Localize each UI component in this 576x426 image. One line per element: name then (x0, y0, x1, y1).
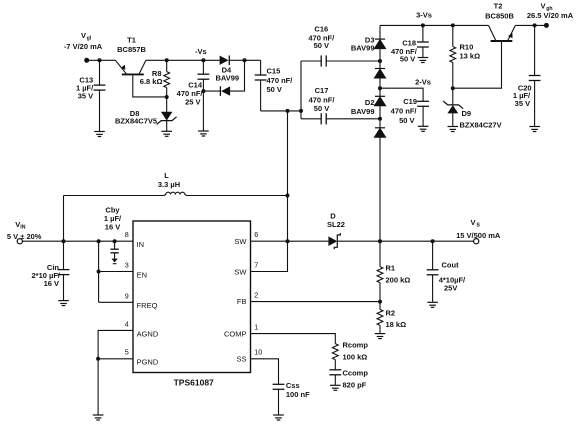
node PGND junction (96, 357, 100, 361)
svg-text:IN: IN (137, 240, 145, 249)
transistor T1 (115, 36, 146, 75)
wire C16/C17 left vertical (300, 61, 302, 119)
node Cout junction (431, 239, 435, 243)
wire FB (251, 301, 381, 303)
node C18 top (421, 23, 425, 27)
svg-text:470 nF/: 470 nF/ (391, 107, 418, 116)
ground C13 (94, 132, 105, 137)
zener diode D9 (443, 88, 501, 129)
svg-text:2: 2 (254, 291, 258, 300)
svg-text:SW: SW (234, 267, 247, 276)
ground Css (273, 415, 284, 420)
ground D8 (161, 131, 172, 136)
svg-text:100 nF: 100 nF (286, 390, 310, 399)
wire T2 base (453, 42, 502, 88)
capacitor Css (273, 381, 310, 415)
svg-text:BAV99: BAV99 (351, 44, 375, 53)
ground AGND/PGND (93, 415, 104, 420)
terminal Vs (474, 239, 479, 244)
svg-text:R1: R1 (386, 263, 396, 272)
node R1 top junction (378, 239, 382, 243)
node C13 junction (98, 58, 102, 62)
svg-text:5 V ± 20%: 5 V ± 20% (7, 232, 42, 241)
svg-text:Ccomp: Ccomp (343, 369, 369, 378)
svg-text:820 pF: 820 pF (343, 381, 367, 390)
diode D2 (dual BAV99) (351, 96, 386, 137)
resistor Rcomp (332, 341, 368, 370)
wire VIN row (22, 240, 133, 242)
node Cby junction (113, 239, 117, 243)
svg-text:SW: SW (234, 237, 247, 246)
wire SW riser (287, 111, 289, 241)
capacitor Cin (31, 241, 69, 300)
pin 10 SS (236, 348, 262, 364)
svg-text:C17: C17 (315, 86, 329, 95)
pin 6 SW (234, 230, 258, 246)
node C16/C17 left junction (299, 109, 303, 113)
svg-text:D2: D2 (365, 98, 375, 107)
ground C14 (198, 131, 209, 136)
ground Cout (427, 302, 438, 307)
node R10/D9/base junction (451, 86, 455, 90)
node inductor right junction (286, 194, 290, 198)
wire EN/FREQ branch (99, 241, 133, 302)
wire D2 bottom to Vs rail (379, 137, 381, 241)
svg-text:BAV99: BAV99 (215, 73, 239, 82)
capacitor C17 (301, 86, 380, 125)
capacitor Ccomp (329, 369, 368, 390)
svg-text:C15: C15 (267, 67, 281, 76)
wire 2-Vs row (380, 88, 423, 101)
capacitor Cby (104, 206, 122, 253)
svg-text:-Vs: -Vs (195, 47, 207, 56)
svg-text:16 V: 16 V (105, 223, 120, 232)
node C17 right junction (378, 117, 382, 121)
wire inductor left leg (63, 196, 65, 242)
svg-text:10: 10 (254, 348, 262, 357)
op-amp U1 TPS61087 body (133, 221, 251, 387)
node Vs label (456, 218, 501, 240)
wire SS (251, 359, 279, 385)
node EN junction (97, 270, 101, 274)
node C20 top (533, 23, 537, 27)
svg-text:V: V (470, 218, 475, 227)
svg-text:6.8 kΩ: 6.8 kΩ (140, 77, 163, 86)
capacitor C20 (513, 25, 541, 126)
svg-text:16 V: 16 V (44, 279, 59, 288)
capacitor Cout (427, 241, 466, 302)
svg-text:13 kΩ: 13 kΩ (460, 52, 481, 61)
capacitor C13 (76, 60, 105, 131)
node 2-Vs junction (378, 86, 382, 90)
diode D3 (dual BAV99) (351, 36, 386, 78)
svg-text:BC857B: BC857B (117, 45, 146, 54)
svg-text:5: 5 (125, 348, 129, 357)
capacitor C14 (177, 60, 210, 131)
svg-text:IN: IN (20, 224, 25, 230)
pin 9 FREQ (125, 291, 158, 310)
node C16 right junction (378, 59, 382, 63)
capacitor C19 (391, 97, 429, 126)
wire -Vs rail (146, 59, 220, 61)
capacitor C16 (301, 25, 380, 67)
ground R2 (375, 334, 386, 339)
capacitor C18 (391, 25, 429, 63)
svg-text:35 V: 35 V (515, 99, 530, 108)
svg-text:50 V: 50 V (399, 116, 414, 125)
resistor R10 (450, 25, 480, 88)
svg-text:8: 8 (125, 230, 129, 239)
svg-text:D9: D9 (462, 109, 472, 118)
wire C15 bottom to pump column (261, 110, 301, 112)
wire AGND/PGND to ground (98, 330, 133, 415)
diode D SL22 (schottky) (327, 212, 345, 250)
svg-text:35 V: 35 V (78, 92, 93, 101)
svg-text:L: L (164, 171, 169, 180)
wire SW7 (251, 241, 288, 271)
svg-text:COMP: COMP (224, 329, 247, 338)
wire SW to diode D (288, 240, 329, 242)
svg-text:BAV99: BAV99 (351, 107, 375, 116)
svg-text:AGND: AGND (137, 329, 159, 338)
ground Cin (58, 301, 69, 306)
pin 1 COMP (224, 323, 258, 339)
zener diode D8 (115, 97, 177, 131)
resistor R1 (377, 241, 410, 301)
svg-text:C19: C19 (403, 97, 417, 106)
node R8 bottom (165, 95, 169, 99)
svg-text:R2: R2 (386, 308, 396, 317)
node SW junction (286, 239, 290, 243)
svg-text:T2: T2 (494, 2, 503, 11)
node Vgl label (64, 31, 103, 51)
transistor T2 (485, 2, 515, 41)
svg-text:470 nF/: 470 nF/ (267, 76, 294, 85)
pin 8 IN (125, 230, 144, 249)
resistor R8 (140, 60, 170, 97)
diode D4 (dual BAV99) (203, 56, 244, 96)
svg-text:1: 1 (254, 323, 258, 332)
wire COMP (251, 334, 336, 344)
svg-text:-7 V/20 mA: -7 V/20 mA (64, 42, 103, 51)
pin 3 EN (125, 261, 147, 280)
node D4 junction (243, 58, 247, 62)
svg-text:C16: C16 (314, 25, 328, 34)
wire pump column (379, 25, 381, 39)
svg-text:50 V: 50 V (400, 55, 415, 64)
svg-text:50 V: 50 V (314, 104, 329, 113)
pin 2 FB (237, 291, 258, 307)
node SW riser junction (286, 109, 290, 113)
node R10 top (451, 23, 455, 27)
svg-text:3-Vs: 3-Vs (416, 11, 432, 20)
svg-text:PGND: PGND (137, 358, 159, 367)
svg-text:7: 7 (254, 261, 258, 270)
svg-text:50 V: 50 V (314, 41, 329, 50)
svg-text:EN: EN (137, 270, 147, 279)
svg-text:T1: T1 (127, 36, 136, 45)
node C14 top junction (201, 58, 205, 62)
wire D to Vs terminal (337, 240, 474, 242)
ground D9 (448, 127, 459, 132)
ground Ccomp (330, 385, 341, 390)
svg-text:18 kΩ: 18 kΩ (386, 320, 407, 329)
wire 3-Vs rail (380, 24, 489, 26)
wire (379, 78, 381, 96)
node R8 top (165, 58, 169, 62)
svg-text:BZX84C27V: BZX84C27V (460, 120, 502, 129)
svg-text:R10: R10 (460, 42, 474, 51)
svg-text:V: V (540, 1, 545, 10)
ground C20 (529, 127, 540, 132)
svg-text:SL22: SL22 (327, 220, 345, 229)
svg-text:3: 3 (125, 261, 129, 270)
svg-text:2-Vs: 2-Vs (415, 78, 431, 87)
svg-text:200 kΩ: 200 kΩ (386, 276, 411, 285)
capacitor C15 (255, 60, 294, 111)
svg-text:25V: 25V (444, 283, 457, 292)
inductor L (64, 171, 288, 195)
svg-text:Css: Css (286, 381, 300, 390)
svg-text:FB: FB (237, 297, 247, 306)
svg-text:50 V: 50 V (267, 85, 282, 94)
terminal Vgh (544, 23, 549, 28)
ground C18 (418, 58, 429, 63)
ground C19 (418, 126, 429, 131)
svg-text:Cout: Cout (442, 261, 460, 270)
node Cin junction (62, 239, 66, 243)
wire SW6 (251, 240, 288, 242)
node Vgh label (527, 1, 574, 20)
svg-text:470 nF/: 470 nF/ (309, 95, 336, 104)
pin 7 SW (234, 261, 258, 277)
node EN branch junction (97, 239, 101, 243)
node FB junction (378, 300, 382, 304)
wire to C15 (245, 59, 261, 61)
svg-text:100 kΩ: 100 kΩ (343, 353, 368, 362)
svg-text:SS: SS (236, 354, 246, 363)
svg-text:S: S (476, 223, 480, 229)
svg-text:TPS61087: TPS61087 (174, 377, 214, 387)
svg-text:BZX84C7V5: BZX84C7V5 (115, 116, 157, 125)
ground Cby (arrow style) (111, 253, 117, 264)
svg-text:4: 4 (125, 319, 129, 328)
svg-text:25 V: 25 V (185, 97, 200, 106)
svg-text:gl: gl (87, 36, 92, 42)
svg-text:FREQ: FREQ (137, 301, 158, 310)
svg-text:BC850B: BC850B (485, 11, 514, 20)
terminal Vgl (84, 58, 89, 63)
svg-text:6: 6 (254, 230, 258, 239)
wire T1 base to R8 bottom (133, 75, 167, 97)
svg-text:3.3 µH: 3.3 µH (158, 180, 180, 189)
node C14 bottom junction (201, 89, 205, 93)
pin 4 AGND (125, 319, 159, 338)
svg-text:26.5 V/20 mA: 26.5 V/20 mA (527, 11, 574, 20)
svg-text:Rcomp: Rcomp (343, 341, 369, 350)
node VIN label (7, 220, 42, 241)
pin 5 PGND (125, 348, 159, 367)
wire Vgh rail (515, 24, 546, 26)
wire Vgl rail (87, 59, 116, 61)
terminal VIN (17, 239, 22, 244)
svg-text:15 V/500 mA: 15 V/500 mA (456, 231, 501, 240)
svg-text:9: 9 (125, 291, 129, 300)
resistor R2 (377, 302, 406, 334)
svg-text:V: V (81, 31, 86, 40)
